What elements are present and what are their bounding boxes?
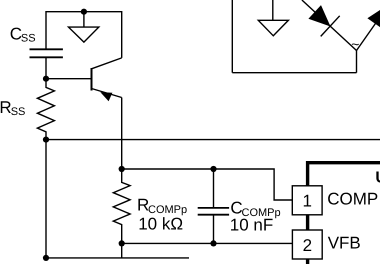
wire mid horizontal rail	[46, 139, 380, 141]
svg-text:10 nF: 10 nF	[230, 216, 273, 235]
wire Q1 emitter lead down	[121, 98, 123, 170]
capacitor CCOMPp plates	[198, 208, 229, 215]
label RCOMPp	[137, 196, 187, 216]
diode D1 wire	[302, 0, 357, 51]
wire top rail with CSS top lead and Q1 collector lead	[46, 12, 122, 58]
ground right symbol	[258, 20, 288, 36]
transistor Q1 emitter arrow	[100, 92, 112, 101]
svg-text:10 kΩ: 10 kΩ	[138, 215, 183, 234]
capacitor CSS plates	[30, 49, 63, 57]
wire COMP node to pin 1	[122, 169, 293, 200]
wire left vertical down	[45, 140, 47, 258]
node C junction dot rail left end	[43, 137, 49, 143]
transistor Q1 lower diagonal emitter	[92, 89, 122, 98]
bridge box right edge	[356, 51, 358, 73]
svg-text:COMP: COMP	[327, 190, 378, 209]
node H junction dot RCOMPp bottom	[119, 240, 125, 246]
wire CSS bottom lead	[45, 57, 47, 78]
svg-text:SS: SS	[21, 32, 36, 44]
label CSS	[10, 24, 36, 44]
node A junction dot on top rail	[81, 9, 87, 15]
node B junction dot CSS/RSS/base	[43, 76, 49, 82]
IC U thick outline edge	[308, 163, 380, 264]
svg-text:VFB: VFB	[328, 234, 361, 253]
svg-text:2: 2	[303, 236, 312, 255]
ground left symbol	[69, 27, 99, 42]
node D junction dot bottom left	[43, 255, 49, 261]
bridge box left edge	[231, 0, 233, 73]
wire CCOMPp bottom lead	[213, 215, 215, 244]
wire CCOMPp top lead	[213, 169, 215, 208]
svg-text:~: ~	[351, 36, 359, 52]
wire bottom rail	[46, 257, 189, 259]
pin 1 box	[292, 186, 322, 215]
diode D2 wire	[357, 20, 379, 51]
resistor RSS	[37, 79, 54, 140]
diode D1 triangle	[308, 5, 330, 26]
svg-text:SS: SS	[11, 106, 26, 118]
node E junction dot COMP node left	[119, 166, 125, 172]
wire Q1 base	[46, 78, 92, 80]
pin 2 box	[292, 230, 322, 259]
wire VFB node to pin 2	[122, 242, 293, 244]
wire ground stub left	[83, 12, 85, 27]
svg-text:1: 1	[302, 192, 311, 211]
resistor RCOMPp	[113, 169, 130, 243]
wire ground stub right	[272, 0, 274, 20]
wire RCOMPp bottom to rail	[121, 243, 123, 258]
label RSS	[0, 98, 25, 118]
label CCOMPp	[230, 199, 280, 219]
diode D2 triangle	[367, 7, 380, 28]
transistor Q1 upper diagonal	[92, 58, 122, 69]
svg-text:U: U	[375, 170, 380, 187]
node F junction dot CCOMPp top	[210, 166, 216, 172]
diode D1 cathode bar	[321, 16, 340, 37]
transistor Q1 base bar	[91, 68, 93, 91]
bridge box bottom edge	[232, 72, 356, 74]
node G junction dot CCOMPp bottom	[210, 240, 216, 246]
